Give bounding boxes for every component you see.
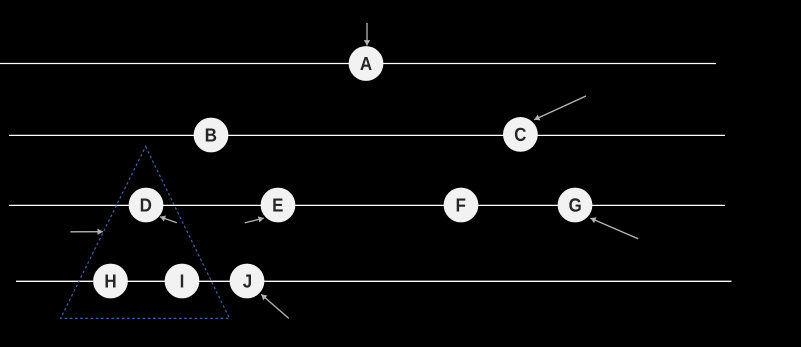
arrow to triangle bbox=[70, 231, 103, 233]
node G bbox=[558, 188, 593, 223]
wire line 4 bbox=[16, 280, 732, 282]
arrow to J bbox=[261, 294, 289, 318]
node E bbox=[261, 188, 296, 223]
arrow to G bbox=[590, 218, 638, 239]
wire line 3 bbox=[9, 204, 725, 206]
wire line 2 bbox=[9, 134, 725, 136]
node C bbox=[503, 117, 538, 152]
arrow to C bbox=[534, 96, 586, 120]
node B bbox=[194, 118, 229, 153]
arrow to E bbox=[245, 218, 264, 223]
triangle (dashed) bbox=[61, 147, 230, 319]
node I bbox=[165, 264, 200, 299]
node F bbox=[444, 188, 479, 223]
node H bbox=[93, 264, 128, 299]
node A bbox=[349, 46, 384, 81]
node J bbox=[230, 264, 265, 299]
arrow to A bbox=[366, 23, 368, 46]
arrow to D bbox=[160, 217, 177, 223]
node D bbox=[129, 188, 164, 223]
wire line 1 bbox=[0, 63, 716, 65]
